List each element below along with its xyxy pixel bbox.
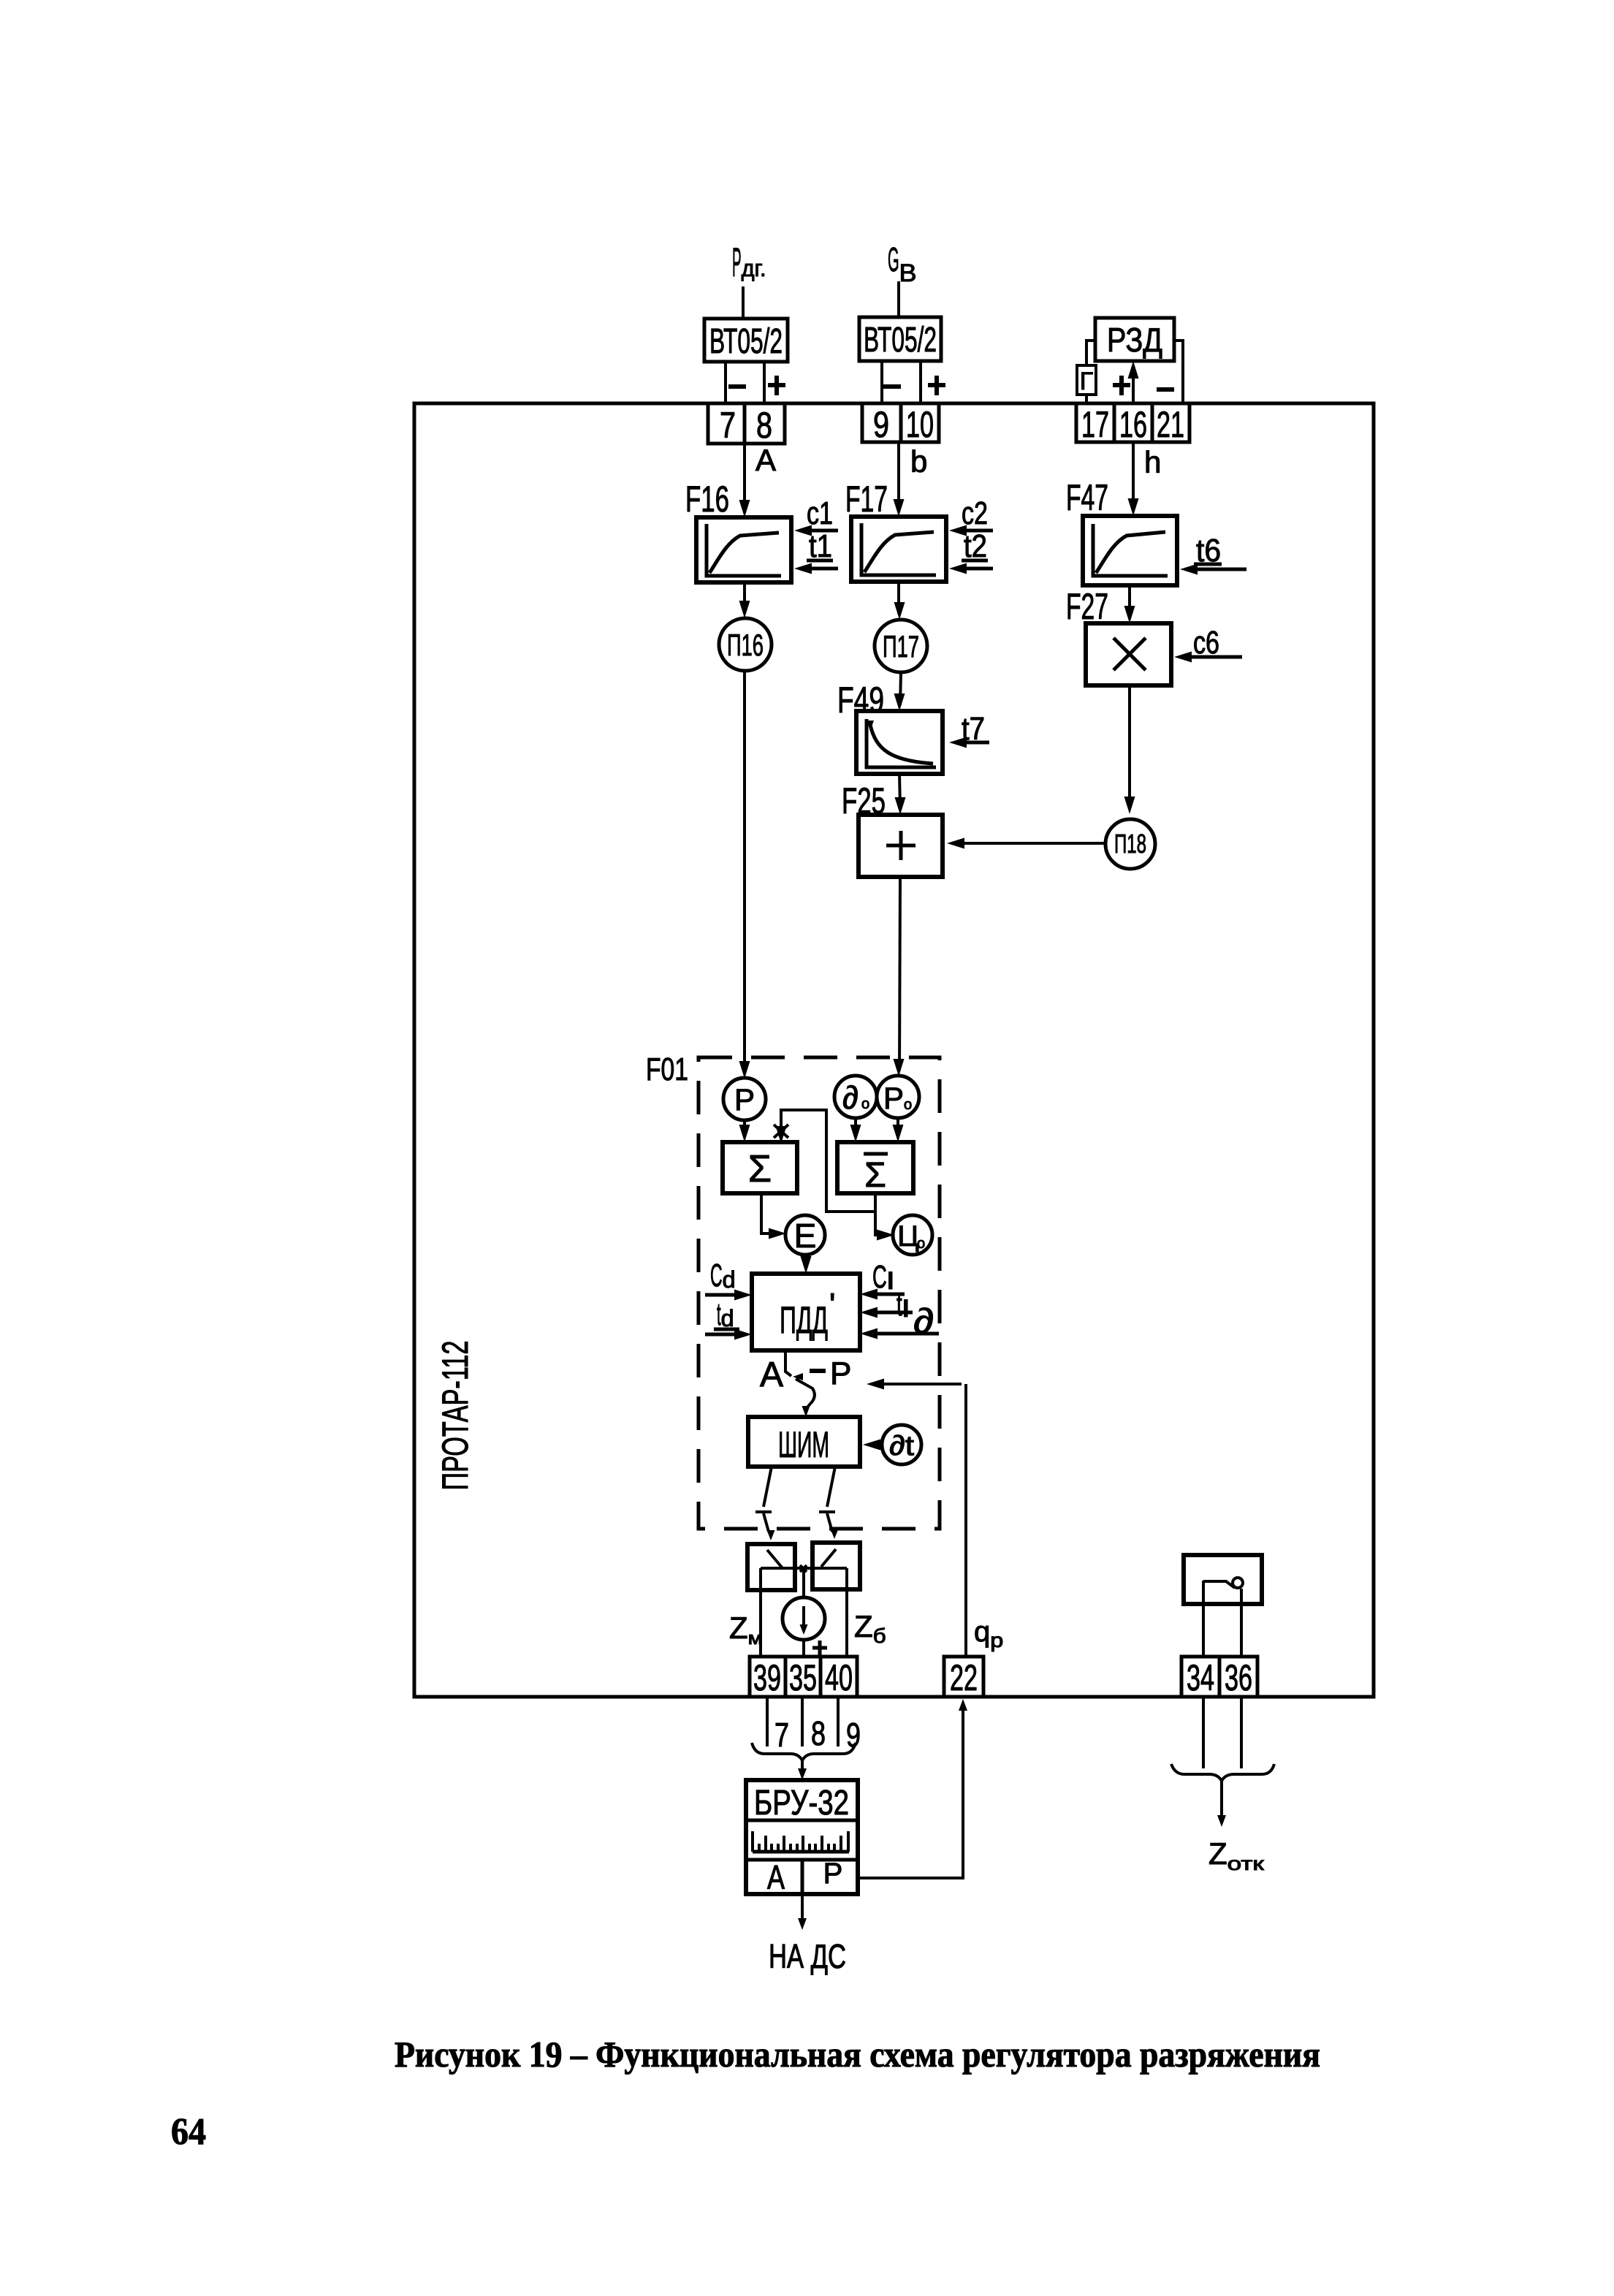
wire P17 to F49 <box>894 672 905 711</box>
label minus BT05/2-2 <box>883 384 901 389</box>
wire t7 into F49 <box>949 737 989 748</box>
svg-text:о: о <box>904 1097 912 1113</box>
node P circle <box>723 1078 766 1120</box>
label BRU-32 <box>754 1784 849 1822</box>
wire Po to sigma2 <box>893 1118 904 1142</box>
label NA DS <box>769 1937 846 1975</box>
wire tl into PDD <box>860 1307 913 1318</box>
label Zb <box>854 1609 886 1647</box>
svg-text:F17: F17 <box>845 479 888 520</box>
svg-text:ПРОТАР-112: ПРОТАР-112 <box>435 1341 476 1491</box>
svg-text:A: A <box>755 443 776 477</box>
svg-text:Р: Р <box>734 1082 755 1117</box>
label Zotk <box>1208 1836 1264 1874</box>
wire BT05/2-1 minus leg <box>724 362 727 403</box>
wire PDD output stub <box>785 1350 791 1376</box>
label t7 <box>962 711 985 747</box>
svg-text:21: 21 <box>1157 404 1184 445</box>
svg-text:РЗД: РЗД <box>1107 321 1162 359</box>
wire 40 to 9 <box>838 1697 861 1754</box>
block RZD <box>1095 318 1174 361</box>
wire BRU P to terminal 22 <box>858 1699 967 1878</box>
block BRU-32 scale <box>753 1831 849 1852</box>
svg-text:Рисунок 19 – Функциональная сх: Рисунок 19 – Функциональная схема регуля… <box>395 2034 1320 2075</box>
svg-text:А: А <box>760 1356 783 1394</box>
svg-text:39: 39 <box>753 1657 781 1698</box>
wire terminal16 to RZD <box>1128 361 1139 403</box>
block F47 box <box>1083 516 1177 585</box>
wire F16 to P16 <box>739 582 750 618</box>
label qp <box>974 1616 1003 1651</box>
svg-text:Ц: Ц <box>897 1220 919 1252</box>
label c2 <box>962 495 988 531</box>
label PROTAR-112 <box>435 1341 476 1491</box>
block SHIM pwm <box>748 1417 860 1467</box>
wire Cd into PDD <box>705 1290 752 1301</box>
label Cd <box>710 1258 736 1293</box>
svg-text:b: b <box>910 444 927 479</box>
svg-text:Σ: Σ <box>864 1156 886 1195</box>
svg-text:16: 16 <box>1119 404 1147 445</box>
wire h to F47 <box>1128 442 1139 516</box>
svg-text:17: 17 <box>1081 404 1109 445</box>
wire c1 into F16 <box>794 525 838 536</box>
wire sigma2 output to sigma1 crossed input <box>774 1110 875 1212</box>
label minus BT05/2-1 <box>728 384 746 389</box>
svg-text:А: А <box>767 1858 785 1896</box>
svg-text:П18: П18 <box>1114 829 1146 859</box>
wire t2 into F17 <box>949 563 993 574</box>
wire to terminal 39 <box>759 1568 762 1657</box>
svg-text:7: 7 <box>720 405 736 446</box>
label F49 <box>837 680 884 721</box>
node A label <box>755 443 776 477</box>
wire c6 into F27 <box>1174 652 1242 663</box>
label plus RZD <box>1113 376 1130 395</box>
block F27 box <box>1086 623 1171 685</box>
label t6 <box>1196 533 1221 569</box>
svg-text:П16: П16 <box>727 628 764 662</box>
wire dt into SHIM <box>863 1440 882 1451</box>
label t1 <box>809 528 832 564</box>
wire do to sigma2 <box>850 1118 861 1142</box>
wire junction to motor <box>802 1568 805 1597</box>
svg-text:Г: Г <box>1080 368 1093 395</box>
page number 64 <box>171 2111 206 2153</box>
block limit switch box <box>1184 1555 1262 1604</box>
label F25 <box>842 780 886 821</box>
svg-text:о: о <box>917 1236 925 1252</box>
wire c2 into F17 <box>949 525 993 536</box>
brace BRU inputs <box>752 1743 856 1760</box>
wire 35 to 8 <box>802 1697 826 1752</box>
label td underline <box>714 1328 739 1331</box>
label t6 underline <box>1194 563 1222 566</box>
node do circle <box>834 1076 877 1118</box>
wire RZD left rail upper <box>1086 341 1095 365</box>
wire t1 into F16 <box>794 563 838 574</box>
node junction cross <box>800 1565 807 1572</box>
block F49 axes <box>867 719 936 767</box>
node P17 circle <box>875 620 927 672</box>
svg-text:ПДД: ПДД <box>780 1299 828 1342</box>
block F16 curve <box>709 533 779 573</box>
wire BT05/2-1 plus leg <box>763 362 766 403</box>
block PDD regulator <box>752 1274 860 1350</box>
terminals 9 10 <box>862 403 939 445</box>
wire motor to terminal 35 <box>802 1640 805 1657</box>
label Cl <box>872 1259 894 1295</box>
wire BRU output <box>798 1894 807 1930</box>
svg-text:∂t: ∂t <box>889 1431 915 1461</box>
block sigma1 box <box>723 1142 797 1193</box>
svg-text:F01: F01 <box>646 1052 688 1087</box>
svg-text:ШИМ: ШИМ <box>778 1424 829 1465</box>
node Gv input label <box>888 240 917 287</box>
wire sigma2 to Tso <box>875 1212 894 1241</box>
block F01 dashed box <box>698 1057 940 1529</box>
svg-text:64: 64 <box>171 2111 206 2153</box>
label plus BT05/2-1 <box>768 376 785 395</box>
svg-text:F49: F49 <box>837 680 884 721</box>
label P remote position <box>830 1356 851 1391</box>
node dt circle <box>882 1425 921 1464</box>
wire P16 to P <box>739 671 750 1079</box>
wire switch arc to SHIM <box>793 1373 815 1417</box>
block F25 plus sign <box>886 831 916 860</box>
label F01 <box>646 1052 688 1087</box>
svg-text:40: 40 <box>825 1657 853 1698</box>
label t2 <box>964 528 987 564</box>
wire b to F17 <box>894 442 905 517</box>
block F27 multiply sign <box>1114 638 1146 670</box>
brace Zotk <box>1171 1764 1274 1781</box>
svg-text:F47: F47 <box>1066 477 1108 518</box>
svg-text:22: 22 <box>950 1657 978 1698</box>
terminals 34 36 <box>1181 1657 1257 1698</box>
svg-text:Р: Р <box>830 1356 851 1391</box>
svg-text:': ' <box>829 1287 835 1323</box>
svg-text:7: 7 <box>774 1716 789 1754</box>
label plus BT05/2-2 <box>928 376 945 395</box>
node Pdg input label <box>732 239 766 285</box>
wire to terminal 40 <box>845 1568 848 1657</box>
wire RZD left rail lower <box>1085 395 1088 403</box>
block F47 axes <box>1093 524 1168 576</box>
svg-text:Е: Е <box>794 1217 817 1255</box>
block F47 curve <box>1096 532 1165 573</box>
node Tso circle <box>893 1215 932 1255</box>
svg-text:F27: F27 <box>1066 586 1108 627</box>
block F49 box <box>856 711 943 774</box>
wire F17 to P17 <box>894 582 905 620</box>
block F17 box <box>851 517 946 582</box>
wire P to sigma1 <box>739 1120 750 1142</box>
svg-text:9: 9 <box>873 404 889 445</box>
svg-text:НА ДС: НА ДС <box>769 1937 846 1975</box>
label F27 <box>1066 586 1108 627</box>
wire Pdg to BT05/2-1 <box>742 286 745 319</box>
wire E to PDD <box>801 1255 812 1274</box>
caption figure 19 <box>395 2034 1320 2075</box>
svg-text:БРУ-32: БРУ-32 <box>754 1784 849 1822</box>
wire d into PDD <box>860 1328 939 1339</box>
wire limit switch blade <box>1203 1581 1235 1588</box>
node motor drive circle <box>783 1597 825 1640</box>
terminals 39 35 40 <box>750 1657 857 1698</box>
wire left relay blade <box>767 1550 783 1568</box>
label F17 <box>845 479 888 520</box>
wire limit switch left lead <box>1202 1581 1205 1657</box>
label t1 underline <box>807 559 833 563</box>
svg-text:Р: Р <box>823 1858 843 1890</box>
wire limit switch hook <box>1233 1578 1243 1588</box>
label t2 underline <box>962 559 988 563</box>
label Zm <box>729 1611 763 1649</box>
wire sigma1 to E <box>761 1193 786 1239</box>
wire relay common bar <box>761 1567 847 1570</box>
block F25 summator box <box>859 815 943 877</box>
wire F25 to Po <box>894 877 905 1076</box>
svg-text:∂: ∂ <box>842 1080 859 1116</box>
wires 34 36 down <box>1203 1697 1241 1768</box>
node E circle <box>785 1215 825 1255</box>
wire right relay blade <box>821 1549 836 1567</box>
wire A to F16 <box>739 444 750 517</box>
label td <box>717 1296 734 1332</box>
block left relay box <box>747 1544 795 1590</box>
node P18 circle <box>1105 819 1155 869</box>
wire P18 to F25 <box>947 838 1105 849</box>
wire SHIM right contact output <box>819 1467 839 1539</box>
block F17 axes <box>861 523 936 575</box>
terminals 7 8 <box>708 403 785 446</box>
node b label <box>910 444 927 479</box>
block PROTAR-112 outer frame <box>414 403 1374 1697</box>
wire Zotk arrow <box>1217 1781 1226 1827</box>
svg-text:F16: F16 <box>685 479 729 520</box>
wire SHIM left contact output <box>755 1467 775 1540</box>
svg-text:ВТ05/2: ВТ05/2 <box>864 321 937 360</box>
label c1 <box>807 495 833 531</box>
terminal 22 <box>944 1657 983 1698</box>
block BRU-32 box <box>746 1780 858 1894</box>
node Po circle <box>877 1076 919 1118</box>
node P16 circle <box>719 618 772 671</box>
wire limit switch right lead <box>1240 1589 1243 1657</box>
block right relay box <box>812 1543 860 1589</box>
wire brace to BRU <box>798 1760 807 1780</box>
svg-text:Σ: Σ <box>748 1148 772 1190</box>
svg-text:36: 36 <box>1225 1657 1252 1698</box>
wire RZD right rail <box>1174 341 1183 403</box>
svg-text:Р: Р <box>883 1081 904 1115</box>
wire BT05/2-2 plus leg <box>919 361 922 403</box>
label F47 <box>1066 477 1108 518</box>
wire BT05/2-2 minus leg <box>880 361 883 403</box>
label plus motor <box>812 1641 827 1655</box>
label minus remote <box>810 1369 826 1373</box>
block BRU-32 A P cells <box>767 1858 842 1896</box>
wire t6 into F47 <box>1180 564 1246 575</box>
block BT05/2 no.2 <box>859 317 941 361</box>
block sigma2 box with bar <box>837 1142 913 1195</box>
block F49 decay curve <box>867 721 933 764</box>
wire 39 to 7 <box>767 1697 789 1754</box>
block F17 curve <box>864 532 934 572</box>
block F16 box <box>696 517 791 582</box>
svg-text:П17: П17 <box>883 629 919 664</box>
block BT05/2 no.1 <box>704 319 788 362</box>
wire qp vertical <box>964 1384 967 1657</box>
svg-text:8: 8 <box>811 1714 826 1752</box>
label d input <box>913 1302 934 1341</box>
terminals 17 16 21 <box>1076 403 1189 445</box>
node h label <box>1144 445 1161 479</box>
svg-text:h: h <box>1144 445 1161 479</box>
svg-text:34: 34 <box>1187 1657 1214 1698</box>
label c6 <box>1193 625 1219 661</box>
label minus RZD <box>1157 387 1174 392</box>
svg-text:10: 10 <box>906 404 934 445</box>
label tl <box>897 1287 910 1323</box>
block F16 axes <box>707 524 781 576</box>
wire qp feedback arrow to switch <box>867 1379 962 1390</box>
label A auto position <box>760 1356 783 1394</box>
svg-text:ВТ05/2: ВТ05/2 <box>709 322 783 361</box>
wire F47 to F27 <box>1124 585 1135 623</box>
wire Gv to BT05/2-2 <box>897 281 900 317</box>
wire F49 to F25 <box>895 774 906 815</box>
wire Cl into PDD <box>860 1289 905 1300</box>
svg-text:о: о <box>861 1096 869 1112</box>
svg-text:35: 35 <box>789 1657 817 1698</box>
wire td into PDD <box>705 1329 752 1340</box>
label F16 <box>685 479 729 520</box>
svg-text:8: 8 <box>756 405 772 446</box>
block G resistor <box>1077 365 1096 395</box>
wire F27 to P18 <box>1124 685 1135 814</box>
